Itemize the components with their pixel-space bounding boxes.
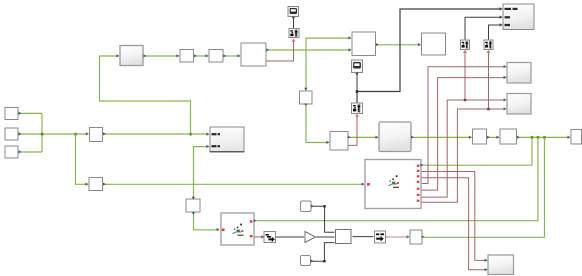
- wire B5 output to B6: [377, 44, 421, 46]
- wire B9 to B10: [518, 136, 570, 138]
- wire C2 to B12 in3: [312, 243, 335, 262]
- port nub G1 in: [116, 54, 119, 57]
- gradient block Mult: [210, 127, 244, 152]
- wire chart2 red r6 to G4 in2: [422, 109, 506, 202]
- port nub G3 in1: [504, 65, 507, 68]
- wire RT5 out pink to B11: [386, 236, 409, 238]
- block B8: [473, 129, 487, 144]
- wire w1 inport1 to vertical: [19, 112, 42, 114]
- wire chart1 out2 maroon to RT4: [255, 236, 263, 238]
- rate transition RTa: [289, 29, 299, 38]
- port nub BR in1: [485, 259, 488, 262]
- port nub RT5 out pink: [385, 235, 388, 239]
- port nub B5 in2: [348, 48, 351, 51]
- port nub B11 out: [422, 235, 425, 238]
- wire B7 out2 maroon up to RT3: [349, 117, 358, 145]
- T1 port label In1: [505, 8, 512, 10]
- rate transition RT5: [375, 231, 386, 243]
- block B3: [209, 50, 223, 63]
- port nub B5 out: [376, 43, 379, 46]
- port nub V1 top: [304, 88, 307, 91]
- rate transition RT1: [461, 40, 470, 50]
- Mult port label 2: [212, 145, 217, 147]
- block B10: [571, 130, 582, 145]
- port nub D in: [86, 132, 89, 135]
- wire B11 out long green up to bus: [424, 137, 545, 237]
- block B9: [500, 129, 517, 144]
- junction J1: [41, 133, 44, 136]
- chart2 Stateflow block: [365, 160, 421, 209]
- RT3 red input arrow: [355, 114, 359, 117]
- wire B2 to B3: [195, 55, 209, 57]
- port nub B10 in: [567, 136, 570, 139]
- block VB: [186, 199, 200, 212]
- port nub C2 out: [311, 259, 314, 262]
- port nub B9 out: [517, 136, 520, 139]
- port nub Mult in1: [206, 133, 209, 136]
- chart1 out2 red label: [250, 235, 253, 237]
- junction J5: [537, 136, 540, 139]
- port nub E in: [85, 183, 88, 186]
- block B5: [352, 32, 376, 56]
- chart1 Stateflow block: [221, 213, 254, 245]
- constant C2: [301, 256, 311, 266]
- chart1 out1 red label: [250, 220, 253, 222]
- block B2: [180, 50, 194, 63]
- junction J6: [543, 136, 546, 139]
- wire branch down to block E: [76, 134, 89, 184]
- wire branch up from main to top chain: [100, 56, 191, 134]
- chart1 icon: [233, 224, 244, 236]
- port nub RT4 in: [261, 235, 264, 239]
- wire chart2 red r1 to bottom-right block in1: [422, 172, 488, 261]
- block E: [89, 178, 103, 191]
- port nub B4 in: [237, 54, 240, 57]
- T1 port label In2: [505, 16, 511, 18]
- gradient block G1: [120, 46, 143, 66]
- chart2 icon: [389, 175, 400, 187]
- port nub B2 out: [194, 54, 197, 57]
- port nub B3 out: [223, 54, 226, 57]
- port nub BR in2: [485, 268, 488, 271]
- chart2 right port labels red: [417, 165, 420, 167]
- port nub B7 out1: [348, 136, 351, 139]
- wire chart2 red r3 to G3 in1: [422, 67, 506, 184]
- inport block A3: [5, 146, 18, 158]
- wire top block in2 from RT1: [465, 17, 502, 39]
- wire top block in3 from RT2: [489, 25, 502, 40]
- wire scope2 tap black: [356, 74, 358, 92]
- wire chart2 red r5 to G4 in1: [422, 100, 506, 197]
- port nub A1 out: [19, 112, 22, 115]
- inport block A2: [5, 128, 18, 140]
- wire B3 to B4: [225, 55, 241, 57]
- wire RT4 out black to gain: [276, 236, 304, 238]
- port nub chart2 green out: [420, 163, 423, 166]
- port nub B4 out1: [266, 48, 269, 51]
- wire main bus right: [104, 133, 209, 135]
- junction J3: [189, 133, 192, 136]
- wire G2 out to B8: [413, 136, 472, 138]
- port nub G4 in2: [504, 107, 507, 110]
- port nub G2 in: [375, 136, 378, 139]
- wire vertical x306 to B5 in1: [306, 38, 351, 89]
- port nub B9 in: [496, 136, 499, 139]
- port nub chart2 in: [362, 183, 365, 186]
- wire B7 out1 to G2: [350, 136, 378, 138]
- junction J7 red: [464, 99, 467, 102]
- port nub Mult in2: [206, 145, 209, 148]
- scope S1: [288, 7, 299, 17]
- wire C1 to B12 in1: [312, 206, 335, 232]
- port nub B11 in red: [407, 235, 410, 238]
- port nub G1 out: [144, 54, 147, 57]
- port nub B5 in1: [348, 36, 351, 39]
- port nub T1 in2: [500, 16, 503, 19]
- chart2 input red mark: [367, 183, 370, 186]
- wire Mult in2 feeder from VB: [194, 147, 208, 198]
- wire RT3 top to junction and to top block in1: [357, 9, 502, 103]
- RT1 red input arrow: [463, 50, 467, 53]
- port nub VB bottom: [192, 212, 195, 215]
- wire main bus left: [19, 133, 88, 135]
- port nub B3 in: [205, 54, 208, 57]
- port nub V1 bottom: [304, 103, 307, 106]
- port nub B7 in: [326, 141, 329, 144]
- port nub G3 in2: [504, 76, 507, 79]
- T1 port label In3: [505, 24, 511, 26]
- port nub B2 in: [176, 54, 179, 57]
- wire RT2 red down to net r6: [488, 53, 490, 109]
- constant C1: [301, 201, 312, 212]
- wire w3 inport3 to vertical: [19, 151, 42, 153]
- junction J9 black: [356, 90, 359, 93]
- port nub B8 in: [469, 136, 472, 139]
- top-right gradient block T1: [503, 4, 534, 30]
- wire B8 to B9: [488, 136, 499, 138]
- scope S2: [352, 60, 363, 73]
- port nub T1 in1: [500, 7, 503, 10]
- wire scope1 to RTa black: [293, 17, 295, 28]
- port nub chart1 out1: [254, 219, 257, 222]
- port nub G2 out: [411, 136, 414, 139]
- Mult port label 1: [212, 133, 217, 135]
- junction J4: [531, 136, 534, 139]
- corner dot C2 wire: [323, 260, 325, 262]
- port nub C1 out: [311, 205, 314, 208]
- wire block E output to chart2 input: [104, 183, 364, 185]
- wire B4 out2 maroon to RTa: [267, 41, 294, 61]
- gradient block G2: [379, 122, 411, 152]
- wire gain out to B12 in2: [316, 236, 335, 238]
- port nub B6 in: [418, 43, 421, 46]
- wire B4 out1 to B5 in2: [268, 49, 352, 51]
- wire chart2 green out up to bus: [422, 137, 532, 165]
- rate transition RT4: [264, 232, 276, 243]
- gain triangle Q1: [305, 232, 316, 243]
- port nub G4 in1: [504, 98, 507, 101]
- corner dot C1 wire: [323, 205, 325, 207]
- rate transition RT3: [352, 103, 363, 114]
- gradient block G3: [507, 63, 531, 84]
- inport block A1: [5, 108, 18, 120]
- port nub VB top: [192, 197, 195, 200]
- wire chart1 out1 long green up to bus: [255, 137, 538, 220]
- block B11: [410, 230, 422, 244]
- wire w2 vertical joiner: [41, 113, 43, 152]
- wire B12 out to RT5: [353, 236, 374, 238]
- port nub B8 out: [487, 136, 490, 139]
- gradient block G4: [507, 94, 531, 115]
- Mult dark bottom edge: [210, 151, 244, 153]
- chart1 input red mark: [222, 229, 225, 232]
- block B6: [422, 33, 446, 55]
- block V1 vertical pass: [300, 91, 313, 104]
- port nub T1 in3: [500, 23, 503, 26]
- block B12: [336, 230, 352, 244]
- port nub E out: [103, 183, 106, 186]
- port nub chart1 in: [217, 228, 220, 231]
- junction J8 red: [487, 108, 490, 111]
- wire chart2 red r4 to G3 in2: [422, 78, 506, 191]
- port nub A3 out: [19, 150, 22, 153]
- wire G1 to B2: [145, 55, 180, 57]
- junction J2: [74, 133, 77, 136]
- RTa red input arrow: [292, 39, 296, 42]
- block D: [90, 128, 103, 142]
- wire V1 bottom to B7 input: [306, 106, 329, 143]
- port nub A2 out: [19, 132, 22, 135]
- port nub scope1 bottom: [292, 17, 295, 20]
- port nub D out: [103, 132, 106, 135]
- rate transition RT2: [484, 40, 493, 50]
- wire VB bottom to chart1 input: [194, 214, 219, 230]
- wire RT1 red down to net r5: [464, 53, 466, 100]
- RT2 red input arrow: [487, 50, 491, 53]
- block B7: [330, 132, 348, 151]
- port nub scope2 bottom: [355, 73, 358, 76]
- wire chart2 red r2 to bottom-right block in2: [422, 178, 488, 270]
- bottom-right gradient block BR: [488, 255, 514, 275]
- block B4: [241, 43, 266, 66]
